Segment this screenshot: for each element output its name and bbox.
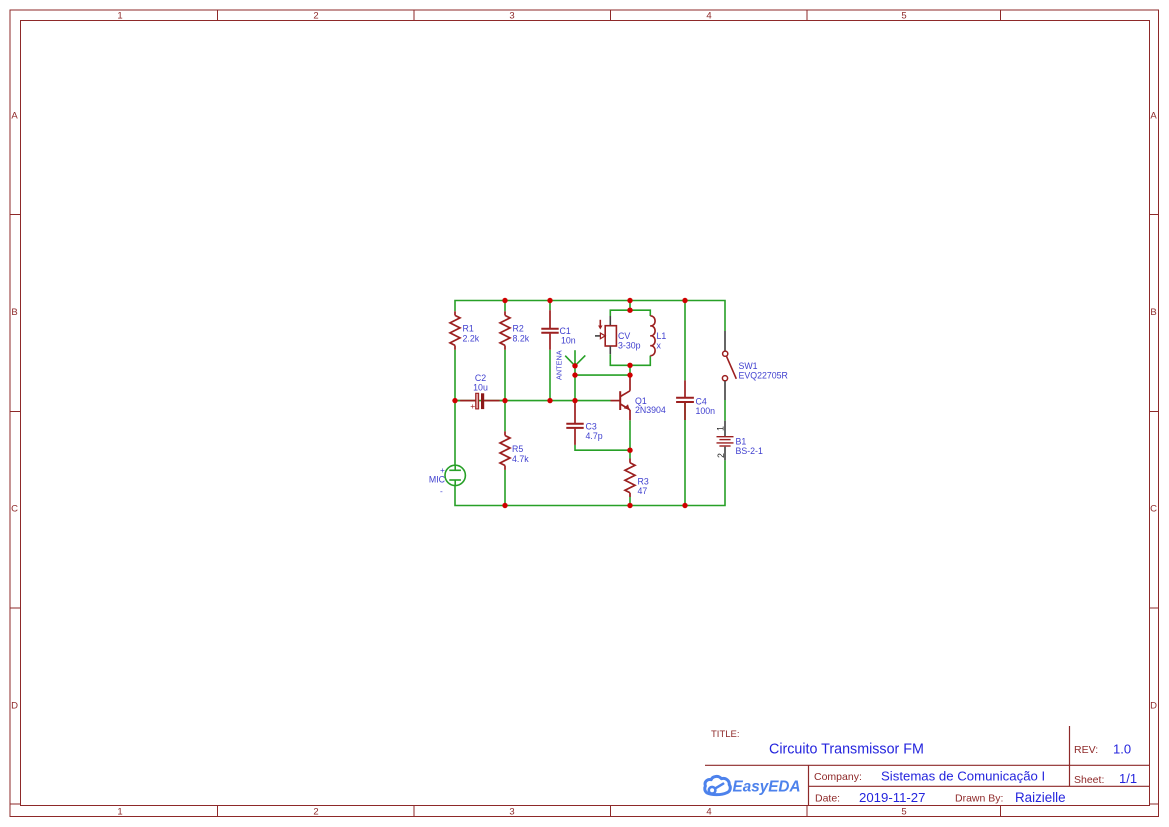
svg-text:REV:: REV: [1074,744,1098,756]
junction MIC/base rail [452,398,457,403]
capacitor C3 [566,401,583,445]
svg-text:D: D [11,701,18,712]
svg-text:1: 1 [117,807,122,818]
junction antenna [572,363,577,368]
svg-text:x: x [657,341,662,351]
svg-text:C3: C3 [586,421,597,431]
junction Vcc/tank [627,298,632,303]
svg-text:SW1: SW1 [739,361,758,371]
capacitor C1 [541,310,558,350]
wire middle rail [455,400,611,402]
junction Vcc/C4 [682,298,687,303]
inductor L1 [650,316,655,356]
svg-text:3: 3 [509,807,514,818]
svg-text:2N3904: 2N3904 [635,405,666,415]
title block lines [705,726,1150,806]
svg-text:CV: CV [618,331,630,341]
wire left column segments [454,350,456,466]
wire top rail [455,301,725,332]
wire bottom rail [455,460,725,505]
junction tank top [627,308,632,313]
svg-text:10u: 10u [473,383,488,393]
svg-text:Raizielle: Raizielle [1015,790,1066,805]
svg-text:8.2k: 8.2k [513,334,530,344]
title block text [711,729,740,740]
transistor Q1 [611,375,631,420]
svg-text:Date:: Date: [815,793,840,805]
svg-text:A: A [1150,111,1157,122]
antenna ANTENA [565,350,585,366]
svg-text:4.7p: 4.7p [586,431,603,441]
svg-text:2: 2 [313,807,318,818]
junction collector [627,372,632,377]
svg-text:R3: R3 [638,477,649,487]
svg-text:R5: R5 [512,444,523,454]
svg-text:47: 47 [638,486,648,496]
wire R2/R5 column [504,301,506,312]
EasyEDA logo [705,776,801,795]
svg-text:2019-11-27: 2019-11-27 [859,790,925,805]
resistor R5 [500,431,510,470]
junction GND/R3 [627,503,632,508]
svg-text:+: + [470,401,475,411]
svg-text:R2: R2 [513,324,524,334]
wire switch-battery link [724,400,726,421]
svg-text:Company:: Company: [814,771,862,783]
junction GND/R5 [502,503,507,508]
svg-text:5: 5 [901,807,906,818]
wire antenna to tank (y=375) [575,374,630,376]
svg-text:-: - [440,486,443,496]
svg-text:2: 2 [313,11,318,22]
battery B1 [717,421,734,461]
svg-text:1: 1 [117,11,122,22]
tank loop wires [610,310,630,316]
svg-text:L1: L1 [657,331,667,341]
wire C1 column [549,301,551,311]
svg-text:+: + [440,465,445,475]
resistor R1 [450,311,460,350]
svg-text:R1: R1 [463,324,474,334]
wire tank bottom stub [629,365,631,375]
junction Vcc/R2 [502,298,507,303]
svg-text:B1: B1 [736,437,747,447]
svg-text:Sistemas de Comunicação I: Sistemas de Comunicação I [881,769,1045,784]
svg-text:BS-2-1: BS-2-1 [736,446,763,456]
svg-text:Drawn By:: Drawn By: [955,793,1003,805]
svg-text:Sheet:: Sheet: [1074,774,1104,786]
junction C1/base rail [547,398,552,403]
wire antenna column [574,366,576,401]
capacitor C4 [676,380,694,420]
svg-text:1/1: 1/1 [1119,771,1137,786]
svg-text:EVQ22705R: EVQ22705R [739,371,788,381]
svg-text:D: D [1150,701,1157,712]
junction emitter/C3 [627,448,632,453]
svg-text:ANTENA: ANTENA [555,350,564,380]
svg-text:4: 4 [706,11,711,22]
junction Vcc/C1 [547,298,552,303]
wire tank top stub [629,301,631,311]
svg-text:3-30p: 3-30p [618,341,641,351]
junction antenna wire [572,372,577,377]
svg-text:4: 4 [706,807,711,818]
svg-text:C: C [11,504,18,515]
resistor R3 [625,459,635,498]
junction GND/C4 [682,503,687,508]
svg-text:C2: C2 [475,373,486,383]
svg-text:1: 1 [716,426,726,431]
svg-text:100n: 100n [696,406,716,416]
junction tank bottom [627,363,632,368]
svg-text:B: B [1150,307,1156,318]
switch SW1 [722,331,736,400]
svg-text:3: 3 [509,11,514,22]
svg-text:Circuito Transmissor FM: Circuito Transmissor FM [769,742,924,758]
svg-text:C: C [1150,504,1157,515]
svg-text:EasyEDA: EasyEDA [733,779,801,796]
microphone MIC [445,465,465,486]
svg-text:2.2k: 2.2k [463,334,480,344]
svg-text:4.7k: 4.7k [512,454,529,464]
svg-text:2: 2 [716,453,726,458]
svg-text:TITLE:: TITLE: [711,729,740,740]
svg-text:1.0: 1.0 [1113,742,1131,757]
svg-text:10n: 10n [561,336,576,346]
wire C4 column [684,301,686,381]
variable capacitor CV [595,316,616,354]
wire emitter to R3 [629,420,631,458]
resistor R2 [500,311,510,350]
capacitor C2 (polarized) [455,393,505,409]
junction C3/base rail [572,398,577,403]
wire C3 bottom link [575,445,630,450]
svg-text:B: B [11,307,17,318]
junction C2/R2 [502,398,507,403]
svg-text:MIC: MIC [429,475,446,485]
svg-text:A: A [11,111,18,122]
svg-text:5: 5 [901,11,906,22]
svg-text:C4: C4 [696,397,707,407]
